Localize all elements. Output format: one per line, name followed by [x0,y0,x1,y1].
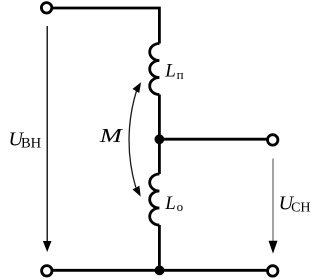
svg-text:ВН: ВН [21,136,42,152]
svg-text:п: п [177,67,184,82]
svg-text:L: L [164,193,176,214]
svg-text:M: M [99,125,124,147]
svg-text:СН: СН [291,201,310,216]
svg-text:о: о [177,199,184,214]
svg-text:L: L [164,61,176,82]
